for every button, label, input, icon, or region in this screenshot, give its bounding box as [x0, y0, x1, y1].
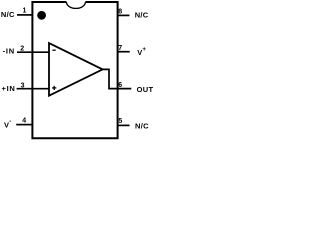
- wire pin 2 (to inverting input): [17, 51, 49, 53]
- wire pin 3 (to non-inverting input): [17, 88, 50, 90]
- pin 1 index dot: [37, 11, 46, 20]
- wire pin 1: [17, 14, 32, 16]
- wire pin 6 output (from op-amp apex): [103, 69, 132, 88]
- svg-text:-: -: [9, 118, 11, 125]
- wire pin 7: [118, 51, 130, 53]
- svg-text:6: 6: [118, 82, 122, 89]
- wire pin 4: [16, 124, 32, 126]
- op-amp U1 triangle: [49, 43, 103, 96]
- svg-text:+: +: [142, 46, 146, 53]
- svg-text:N/C: N/C: [1, 10, 15, 19]
- svg-text:-IN: -IN: [3, 47, 15, 56]
- svg-text:2: 2: [20, 46, 24, 53]
- non-inverting input marker (+): [52, 86, 56, 90]
- IC package body U1 (8-pin DIP outline with index notch): [32, 2, 117, 138]
- svg-text:7: 7: [118, 45, 122, 52]
- svg-text:8: 8: [118, 8, 122, 15]
- svg-text:N/C: N/C: [135, 121, 149, 130]
- svg-text:+IN: +IN: [2, 84, 16, 93]
- svg-text:3: 3: [21, 82, 25, 89]
- svg-text:4: 4: [22, 118, 26, 125]
- label V+ pin 7: [137, 46, 146, 57]
- label V- pin 4: [4, 118, 11, 130]
- wire pin 8: [118, 14, 130, 16]
- inverting input marker (-): [52, 49, 55, 51]
- svg-text:5: 5: [118, 118, 122, 125]
- svg-text:N/C: N/C: [135, 11, 149, 20]
- wire pin 5: [118, 124, 130, 126]
- svg-text:1: 1: [23, 7, 27, 14]
- svg-text:OUT: OUT: [137, 85, 154, 94]
